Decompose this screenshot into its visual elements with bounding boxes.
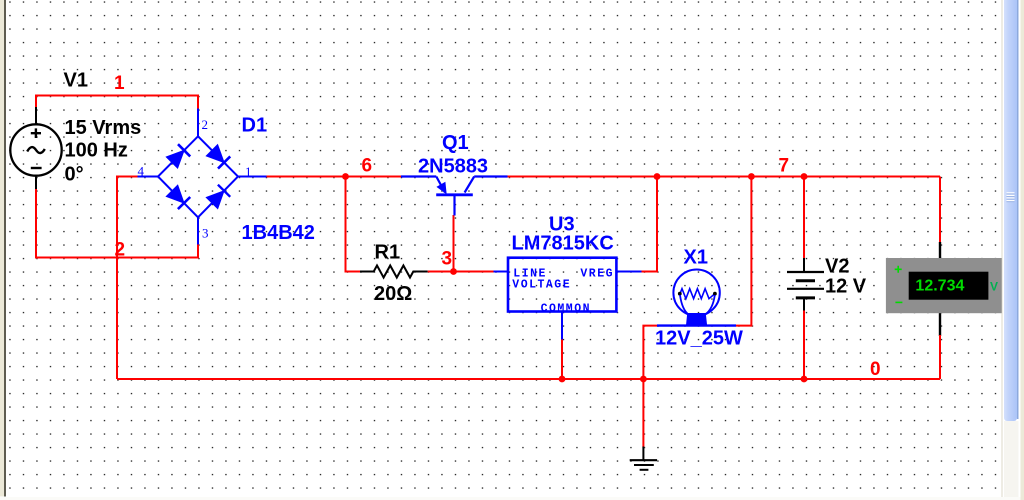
svg-text:12V_25W: 12V_25W xyxy=(655,328,743,350)
svg-text:COMMON: COMMON xyxy=(541,302,591,315)
svg-text:R1: R1 xyxy=(375,242,401,264)
voltmeter xyxy=(886,242,1002,336)
source V1 xyxy=(10,107,61,190)
svg-text:Q1: Q1 xyxy=(442,132,469,154)
svg-text:V: V xyxy=(990,280,998,294)
wire: voltmeter down to rail xyxy=(939,335,941,379)
diode D1c (pin4 to pin3) xyxy=(166,185,190,209)
svg-text:2: 2 xyxy=(202,117,209,132)
wire: node 6 to transistor emitter xyxy=(346,176,402,178)
junction net 7 at V2 xyxy=(801,173,808,180)
svg-text:15 Vrms: 15 Vrms xyxy=(65,117,142,139)
svg-text:1B4B42: 1B4B42 xyxy=(242,222,315,244)
svg-text:VREG: VREG xyxy=(580,267,614,280)
svg-text:V2: V2 xyxy=(825,256,849,278)
svg-text:20Ω: 20Ω xyxy=(374,283,412,305)
svg-text:100 Hz: 100 Hz xyxy=(65,140,128,162)
diode D1a (pin4 to pin2) xyxy=(166,144,190,168)
svg-text:3: 3 xyxy=(202,226,209,241)
bridge rectifier D1 xyxy=(138,109,267,245)
resistor R1 xyxy=(360,266,428,278)
svg-text:4: 4 xyxy=(138,164,145,179)
svg-text:7: 7 xyxy=(779,156,790,177)
junction ground rail at lamp xyxy=(640,376,647,383)
ground xyxy=(630,447,657,470)
junction node 3 xyxy=(450,268,457,275)
wire: transistor base to node 3 xyxy=(453,215,455,272)
svg-text:1: 1 xyxy=(114,73,125,94)
wire: node 3 to U3 input lead xyxy=(454,271,494,273)
svg-text:VOLTAGE: VOLTAGE xyxy=(512,279,571,292)
wire: V2 down to rail xyxy=(803,311,805,380)
svg-text:2N5883: 2N5883 xyxy=(418,156,488,178)
value label V1: 15 Vrms 100 Hz 0deg xyxy=(65,117,142,186)
wire: V1 top to bridge top (net 1) xyxy=(36,96,198,109)
wire: U3 common down to rail xyxy=(561,340,563,380)
wire: V1 bottom to bridge pin 3 (net 2) xyxy=(36,189,198,258)
transistor Q1 xyxy=(401,177,508,216)
wire: R1 right lead to node 3 xyxy=(428,271,454,273)
wire: bottom rail (net 0) xyxy=(117,378,940,380)
wire: node 6 down to R1 left lead xyxy=(346,177,361,272)
junction net 7 at lamp xyxy=(748,173,755,180)
junction net 7 at U3 output xyxy=(654,173,661,180)
wire: U3 output up to net 7 xyxy=(642,177,658,272)
svg-text:6: 6 xyxy=(362,156,373,177)
lamp X1 xyxy=(657,270,736,326)
svg-text:12 V: 12 V xyxy=(825,276,867,298)
junction node 6 xyxy=(342,173,349,180)
wire: transistor collector to voltmeter (net 7) xyxy=(508,176,941,178)
voltage regulator U3 xyxy=(494,258,642,340)
svg-text:X1: X1 xyxy=(684,247,708,269)
diode D1d (pin3 to pin1) xyxy=(206,185,230,209)
svg-text:D1: D1 xyxy=(242,115,268,137)
wire: net 7 down to V2 xyxy=(803,177,805,260)
wire: ground rail to ground symbol xyxy=(642,379,644,448)
svg-text:LM7815KC: LM7815KC xyxy=(512,233,614,255)
svg-text:12.734: 12.734 xyxy=(915,277,964,294)
wire: lamp right pin up to net 7 xyxy=(736,177,751,326)
svg-text:V1: V1 xyxy=(64,70,88,92)
svg-text:0°: 0° xyxy=(65,164,84,186)
diode D1b (pin2 to pin1) xyxy=(206,145,230,169)
wire: net 7 down to voltmeter xyxy=(939,177,941,244)
wire: bridge pin 1 to node 6 xyxy=(267,176,346,178)
svg-text:0: 0 xyxy=(870,359,881,380)
battery V2 xyxy=(787,258,824,312)
svg-text:3: 3 xyxy=(442,249,453,270)
svg-text:1: 1 xyxy=(245,164,252,179)
junction rail at V2 xyxy=(801,376,808,383)
junction rail at U3 common xyxy=(559,376,566,383)
wire: lamp left pin to ground rail xyxy=(643,326,657,379)
wire: bridge pin 4 to bottom rail xyxy=(117,177,138,380)
